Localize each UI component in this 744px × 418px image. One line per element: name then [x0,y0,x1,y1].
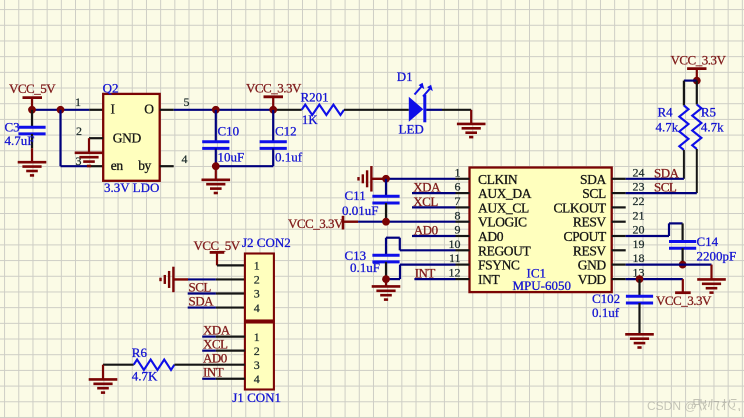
junction at C10 [212,106,220,114]
svg-text:R4: R4 [658,104,674,119]
wire AD0 to pin 9 [412,235,456,237]
svg-text:10: 10 [449,237,461,251]
pin 23 stub (right, SCL) [612,192,626,194]
watermark CSDN [647,399,740,413]
svg-text:SCL: SCL [189,279,212,294]
svg-text:INT: INT [478,272,500,287]
ground below C10 [215,166,217,180]
svg-text:24: 24 [633,165,645,179]
pin 3 stub of Q2 [89,165,103,167]
wire REGOUT hook to C13 [386,238,456,251]
wire SCL from pin 23 [626,192,697,194]
pin 21 stub (right, RESV) [612,221,626,223]
pin 22 stub (right, CLKOUT) [612,206,626,208]
pin 2 stub of J2 [216,278,245,280]
wire to LED ground [442,109,471,111]
svg-text:SDA: SDA [189,293,215,308]
wire XDA to AUX_DA [412,192,456,194]
pin 20 stub (right, CPOUT) [612,235,626,237]
svg-text:11: 11 [449,251,461,265]
svg-text:XCL: XCL [203,337,228,352]
wire VCC_3.3V to VLOGIC [358,221,455,223]
resistor R201 [302,105,344,115]
svg-text:AUX_CL: AUX_CL [478,200,529,215]
wire INT to pin 12 [414,278,455,280]
junction C14/GND rail [679,261,687,269]
svg-text:en: en [111,158,124,173]
connector J1 body [245,323,274,390]
wire XCL to J1 pin 2 [202,350,216,352]
wire R6 to J1 pin 3 [174,364,245,366]
svg-text:VCC_3.3V: VCC_3.3V [288,216,344,231]
resistor R4 [683,81,685,106]
pin 1 stub of Q2 [89,109,103,111]
svg-text:REGOUT: REGOUT [478,243,531,258]
junction C13/ground [382,275,390,283]
svg-text:Q2: Q2 [103,81,119,96]
svg-text:23: 23 [633,180,645,194]
pin 2 stub of Q2 [89,137,103,139]
svg-text:INT: INT [203,365,224,380]
svg-text:1: 1 [254,259,260,273]
svg-text:INT: INT [415,266,436,281]
svg-text:4: 4 [254,372,260,386]
svg-text:SDA: SDA [654,165,680,180]
svg-text:AD0: AD0 [203,351,227,366]
regulator Q2 body [103,94,160,181]
svg-text:9: 9 [455,223,461,237]
wire GND pin 18 to ground [626,264,712,266]
svg-text:7: 7 [455,194,461,208]
pin 19 stub (right, RESV) [612,249,626,251]
svg-text:RESV: RESV [573,215,607,230]
power port VCC_3.3V (VLOGIC) [288,216,358,231]
wire ground to R6 [103,364,134,366]
svg-text:SDA: SDA [580,172,606,187]
capacitor C102 [626,279,653,334]
svg-text:O: O [144,102,154,117]
svg-text:XCL: XCL [413,194,438,209]
pin 4 stub of J2 [216,306,245,308]
ground at Q2 pin 2 [88,138,90,153]
svg-text:C10: C10 [218,123,240,138]
wire VCC_5V to J2 pin 1 [217,264,245,266]
wire LED cathode to ground [426,109,442,111]
ground left of R6 [102,365,104,380]
op-amp IC1 MPU-6050 body [470,168,612,293]
svg-text:3: 3 [254,287,260,301]
wire C10 bottom to C12 bottom [216,165,273,167]
junction R4/R5 top [693,77,701,85]
wire INT to J1 pin 4 [202,378,216,380]
ground right of LED [470,110,472,124]
LED D1 [409,83,433,123]
pin 1 stub of J1 [216,336,245,338]
wire FSYNC hook to C13 ground [386,265,456,280]
wire J2 pin 2 [188,278,216,280]
pin 5 stub of Q2 [160,109,174,111]
svg-text:2: 2 [254,273,260,287]
wire en branch to pin 3 [61,165,90,167]
ground below C102 [625,334,654,347]
R201 left lead [276,109,302,111]
power port VCC_3.3V (bottom right) [656,279,712,308]
wire R4 top link [684,79,697,81]
connector J2 body [245,254,274,321]
capacitor C14 [669,223,696,264]
svg-text:1K: 1K [302,112,319,127]
svg-text:C11: C11 [345,188,366,203]
svg-text:18: 18 [633,251,645,265]
pin 2 stub of J1 [216,350,245,352]
power port VCC_5V (top left) [9,81,56,110]
ground at J2 pin 2 (sideways) [173,278,188,280]
svg-text:D1: D1 [397,69,413,84]
svg-text:0.1uf: 0.1uf [275,150,303,165]
capacitor C12 [260,110,287,166]
pin 9 stub (left, AD0) [456,235,470,237]
wire SCL to J2 pin 3 [188,292,216,294]
power port VCC_3.3V (top middle) [246,81,302,110]
svg-text:3: 3 [254,358,260,372]
ground left of CLKIN (sideways) [371,178,386,180]
capacitor C11 [372,179,399,222]
wire en branch down [59,110,61,166]
svg-text:GND: GND [578,258,607,273]
svg-text:J1 CON1: J1 CON1 [232,390,281,405]
capacitor C3 [18,110,45,148]
svg-text:VCC_5V: VCC_5V [9,81,56,96]
svg-text:19: 19 [633,237,645,251]
svg-text:AUX_DA: AUX_DA [478,186,532,201]
svg-text:VCC_3.3V: VCC_3.3V [246,81,302,96]
svg-text:SCL: SCL [654,180,677,195]
capacitor C10 [202,110,229,166]
svg-text:1: 1 [254,330,260,344]
pin 3 stub of J2 [216,292,245,294]
svg-text:C102: C102 [592,291,620,306]
svg-text:CLKIN: CLKIN [478,172,518,187]
wire pin5 to R201 [174,109,276,111]
wire VDD pin 13 rail [626,278,683,280]
svg-text:AD0: AD0 [414,223,438,238]
svg-text:4.7k: 4.7k [701,120,724,135]
svg-text:J2 CON2: J2 CON2 [242,235,291,250]
power port VCC_5V (J2) [194,238,241,265]
wire CPOUT hook to C14 [626,223,683,236]
svg-text:XDA: XDA [203,323,231,338]
wire SDA to J2 pin 4 [188,306,216,308]
svg-text:4.7k: 4.7k [656,120,679,135]
svg-text:R201: R201 [301,89,329,104]
junction CLKIN/C11 [382,175,390,183]
resistor R5 [696,81,698,105]
pin 4 stub of J1 [216,378,245,380]
svg-text:22: 22 [633,194,645,208]
resistor R6 [134,360,175,370]
svg-text:C12: C12 [275,123,297,138]
svg-text:by: by [138,158,151,173]
pin 12 stub (left, INT) [456,278,470,280]
svg-text:FSYNC: FSYNC [478,258,520,273]
pin 7 stub (left, AUX_CL) [456,206,470,208]
svg-text:2200pF: 2200pF [697,248,737,263]
wire SDA from pin 24 [626,178,684,180]
svg-text:CPOUT: CPOUT [564,229,607,244]
svg-text:21: 21 [633,208,645,222]
svg-text:2: 2 [254,344,260,358]
ground below C3 [31,148,33,162]
svg-text:LED: LED [399,122,424,137]
svg-text:0.1uF: 0.1uF [350,260,380,275]
svg-text:10uF: 10uF [218,150,245,165]
svg-text:VLOGIC: VLOGIC [478,215,527,230]
svg-text:R6: R6 [132,345,148,360]
wire VCC_5V rail to Q2 pin 1 [32,109,89,111]
svg-text:C14: C14 [697,234,719,249]
ground at pin 18 [710,265,712,280]
svg-text:R5: R5 [701,104,716,119]
pin 18 stub (right, GND) [612,264,626,266]
svg-text:CSDN @: CSDN @ [647,399,697,413]
svg-text:1: 1 [75,95,81,109]
svg-text:CLKOUT: CLKOUT [553,200,606,215]
svg-text:0.1uf: 0.1uf [592,305,620,320]
svg-text:VDD: VDD [578,272,607,287]
svg-text:1: 1 [455,165,461,179]
pin 4 stub of Q2 [160,165,174,167]
svg-text:VCC_3.3V: VCC_3.3V [671,52,727,67]
capacitor C13 [372,238,399,279]
junction at VCC_5V/C3 [28,106,36,114]
svg-text:4: 4 [254,301,260,315]
svg-text:4: 4 [182,152,188,166]
svg-text:12: 12 [449,266,461,280]
pin 24 stub (right, SDA) [612,178,626,180]
pin 10 stub (left, REGOUT) [456,249,470,251]
svg-text:3.3V LDO: 3.3V LDO [104,180,159,195]
junction at C12/VCC_3.3V [269,106,277,114]
svg-text:VCC_3.3V: VCC_3.3V [656,293,712,308]
svg-text:SCL: SCL [582,186,606,201]
pin 8 stub (left, VLOGIC) [456,221,470,223]
svg-text:4.7uF: 4.7uF [5,133,35,148]
svg-text:AD0: AD0 [478,229,504,244]
svg-text:5: 5 [184,95,190,109]
junction at C10 ground [212,162,220,170]
svg-text:6: 6 [455,180,461,194]
pin 6 stub (left, AUX_DA) [456,192,470,194]
ground below C13 [385,279,387,286]
pin 1 stub (left, CLKIN) [456,178,470,180]
svg-text:RESV: RESV [573,243,607,258]
svg-text:VCC_5V: VCC_5V [194,238,241,253]
wire R201 to LED D1 [344,109,409,111]
junction VLOGIC/C11 [382,218,390,226]
svg-text:MPU-6050: MPU-6050 [513,278,572,293]
wire XCL to AUX_CL [412,206,456,208]
pin 11 stub (left, FSYNC) [456,264,470,266]
svg-text:GND: GND [113,130,142,145]
svg-text:0.01uF: 0.01uF [342,203,378,218]
svg-text:2: 2 [76,124,82,138]
power port VCC_3.3V (top right) [671,52,727,80]
svg-text:XDA: XDA [413,180,441,195]
pin 13 stub (right, VDD) [612,278,626,280]
wire XDA to J1 pin 1 [202,336,216,338]
wire CLKIN to ground node [386,178,456,180]
svg-text:4.7K: 4.7K [132,368,158,383]
junction VDD/C102 [636,275,644,283]
svg-text:20: 20 [633,223,645,237]
svg-text:8: 8 [455,208,461,222]
junction at Q2 pin1 / en branch [57,106,65,114]
